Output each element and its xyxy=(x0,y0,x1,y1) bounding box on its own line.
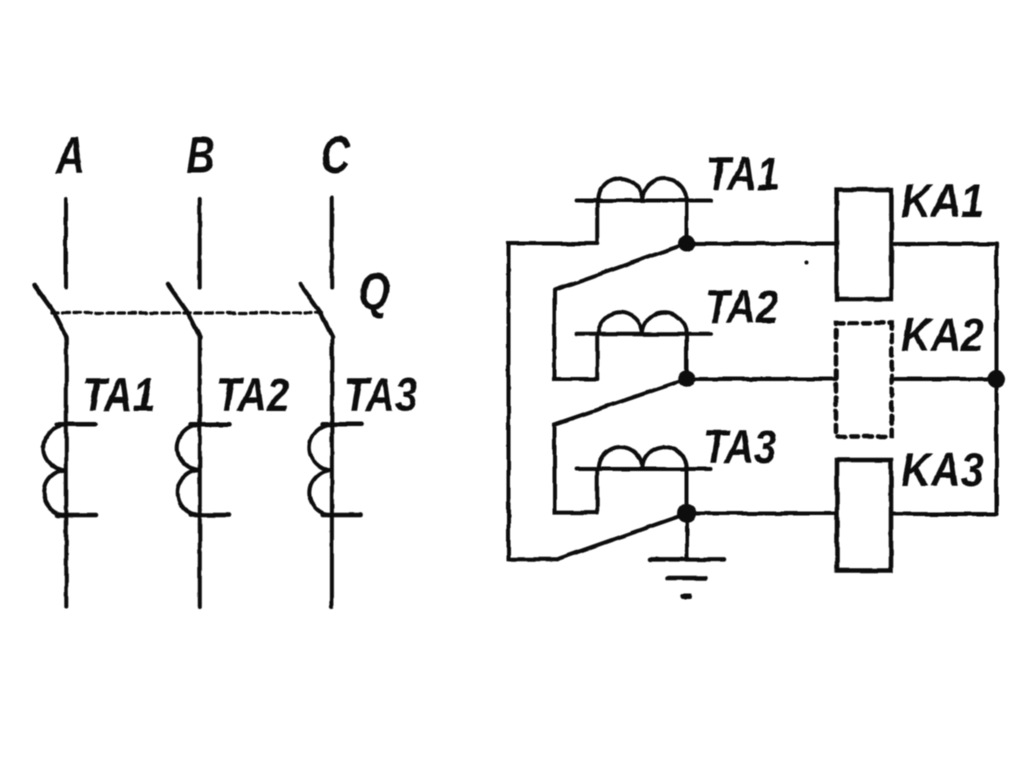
svg-text:KA3: KA3 xyxy=(901,445,984,497)
svg-text:TA3: TA3 xyxy=(703,421,776,474)
svg-text:KA1: KA1 xyxy=(901,176,984,228)
svg-text:TA3: TA3 xyxy=(344,369,417,422)
svg-text:B: B xyxy=(186,126,215,184)
svg-text:KA2: KA2 xyxy=(901,310,984,362)
svg-text:TA2: TA2 xyxy=(705,281,778,334)
svg-text:TA2: TA2 xyxy=(216,369,289,422)
svg-text:C: C xyxy=(321,126,351,184)
svg-text:TA1: TA1 xyxy=(706,148,779,201)
svg-text:A: A xyxy=(55,126,85,184)
svg-text:TA1: TA1 xyxy=(82,369,155,422)
svg-text:Q: Q xyxy=(359,262,391,320)
